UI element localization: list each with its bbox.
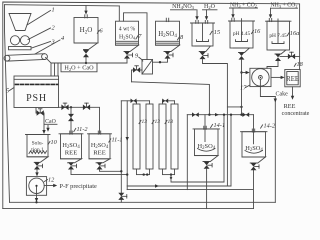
label 4wt% H2SO4 tank 7 (119, 27, 136, 41)
svg-text:CaO: CaO (45, 119, 56, 125)
svg-text:REE: REE (286, 76, 299, 83)
reactor tank 16a (266, 18, 292, 54)
svg-text:concentrate: concentrate (282, 111, 310, 117)
label H2O underline (203, 9, 218, 11)
label 10 pointer (48, 141, 50, 144)
tank H2SO4 8 (156, 18, 180, 51)
svg-text:1: 1 (52, 7, 55, 14)
svg-text:NH3 + CO2: NH3 + CO2 (270, 3, 297, 9)
pipe label box H2O+CaO (61, 63, 97, 72)
wire eluate line 1 arrow (155, 184, 159, 187)
wire columns feed downpipe (120, 101, 122, 203)
mixer box 9 (142, 60, 153, 75)
wire bottom return pipe (3, 208, 254, 210)
wire tank 8 outlet to mixer 9 (153, 59, 168, 63)
label 18 pointer (294, 63, 296, 66)
label 16 pointer (252, 30, 254, 33)
valve on bridge 2 (162, 99, 168, 104)
node header 1 dots (143, 173, 149, 175)
valve under tank 14-2 (251, 163, 260, 170)
wire filter 17 output arrow to 18 (271, 76, 285, 79)
valve on feed line right (242, 112, 249, 117)
wire mix line to PSH (51, 63, 127, 76)
valve on branch to dryer 18 (288, 52, 295, 59)
label 14-1 pointer (211, 124, 213, 127)
label 12 pointer (45, 180, 48, 182)
label 6 pointer (97, 30, 99, 33)
label 16a pointer (287, 32, 289, 35)
label REE concentrate (282, 103, 310, 117)
label 15 pointer (210, 31, 212, 34)
tank 4wt% H2SO4 7 (116, 21, 139, 51)
node tank6 junction (85, 62, 87, 64)
svg-text:Solu-: Solu- (32, 141, 44, 147)
label NH3+CO2 underline 16a (271, 7, 298, 9)
svg-text:18: 18 (297, 61, 304, 68)
wire cake arrow (274, 99, 277, 103)
wire conveyor chute (46, 58, 51, 63)
wire tank 6 outlet (85, 57, 87, 63)
label H2SO4 REE tank 11-1 (91, 142, 109, 157)
wire drop into tank 14-1 (204, 115, 206, 129)
valve on PSH bottom line left (61, 103, 68, 110)
node second downpipe junction (126, 173, 128, 175)
svg-text:13: 13 (168, 119, 174, 125)
svg-text:4 wt %: 4 wt % (119, 27, 136, 33)
wire PSH inlet drop 3 (57, 63, 59, 76)
wire feed line left downcomer (186, 115, 188, 190)
svg-text:11-1: 11-1 (112, 137, 123, 144)
valve under tank 14-1 (204, 162, 213, 169)
svg-text:REE: REE (65, 149, 77, 156)
svg-text:17: 17 (240, 85, 247, 92)
svg-text:4: 4 (61, 35, 64, 42)
label 13 b pointer (152, 120, 154, 123)
valve on feed line left (192, 112, 199, 117)
node downpipe junction (120, 170, 122, 172)
wire filter 17 cake drain (260, 87, 275, 97)
wire REE concentrate arrow (291, 87, 294, 100)
svg-text:10: 10 (51, 139, 58, 146)
wire PSH left outlet to tank 10 (36, 108, 44, 132)
valve under tank 16a (275, 54, 281, 61)
svg-text:13: 13 (142, 119, 148, 125)
svg-text:tion 1: tion 1 (31, 147, 44, 153)
wire feed arrow into filter 17 (242, 71, 250, 74)
svg-text:Cake: Cake (276, 92, 289, 98)
svg-text:14-1: 14-1 (214, 122, 226, 129)
wire bridge 2 (163, 101, 175, 104)
reactor tank 15 (191, 20, 215, 51)
valve on PSH bottom line right (83, 103, 90, 110)
label 7 pointer (136, 36, 138, 39)
node feed line junctions (208, 114, 243, 116)
wire filter 12 output arrow (44, 184, 57, 187)
wire top pipe drop into tank 7 (118, 6, 120, 21)
wire mixer 9 inlet from main line (132, 70, 143, 82)
svg-text:H2O + CaO: H2O + CaO (64, 65, 94, 72)
label 3 pointer (32, 42, 51, 49)
svg-text:H2O: H2O (204, 4, 216, 10)
tank H2O 6 (74, 15, 98, 50)
valve on tank 10 feed (37, 109, 44, 116)
dryer box REE 18 (285, 70, 300, 87)
wire inner top pipe (5, 5, 120, 6)
valve under tank 7 (124, 51, 133, 58)
wire column header 1 (137, 169, 150, 175)
wire column header 2 (163, 169, 175, 175)
label 9 pointer (139, 57, 143, 61)
svg-text:14-2: 14-2 (264, 123, 276, 130)
wire arrowhead into tank 10 (42, 130, 45, 134)
label 13 c pointer (165, 120, 167, 123)
wire PSH bottom line to tanks 11 (59, 107, 100, 134)
wire cake downpipe (274, 97, 276, 203)
svg-text:REE: REE (284, 103, 296, 110)
reactor tank 16 (229, 18, 255, 52)
svg-text:pH 7.45: pH 7.45 (269, 33, 287, 39)
wire bridge 1 (121, 101, 149, 104)
valve under tank 11-1 (97, 162, 106, 169)
sorption column 13-3 (159, 104, 166, 169)
svg-text:16a: 16a (290, 30, 299, 37)
wire main recycle line (132, 82, 210, 115)
svg-text:H2SO4: H2SO4 (119, 35, 136, 41)
wire eluate line 2 (127, 189, 252, 191)
wire PSH inlet drop 2 (54, 63, 56, 76)
valve on bridge 1 (131, 99, 137, 104)
wire drop into tank 14-2 (253, 115, 255, 132)
wire tank 10 outlet to filter 12 (35, 170, 38, 177)
label CaO underline (45, 123, 58, 125)
svg-text:12: 12 (48, 177, 55, 184)
tank 10 solution (26, 135, 51, 163)
wire tank 14-2 outlet (253, 170, 255, 208)
svg-text:15: 15 (214, 29, 220, 36)
node mix junction 15-16 (240, 106, 242, 108)
label Solution 1 tank 10 (31, 141, 44, 153)
wire feed line arrow (215, 113, 219, 116)
wire NH4NO3 feed arrow (195, 10, 198, 20)
valve under tank 16 (239, 52, 245, 59)
wire H2O feed arrow (205, 10, 208, 20)
tank 14-1 (193, 126, 220, 161)
label 14-2 pointer (261, 125, 263, 128)
crusher rolls 2 (10, 36, 29, 45)
wire tank 15 outlet path (203, 59, 242, 107)
wire second column downpipe (126, 101, 128, 190)
svg-text:5: 5 (6, 88, 9, 95)
label NH4NO3 underline (171, 9, 197, 11)
valve at mixer 9 inlet (133, 66, 140, 73)
wire bottom cake recycle pipe (10, 201, 276, 203)
wire tank 14-1 outlet (206, 169, 208, 209)
hopper 1 (9, 14, 31, 31)
wire mixer 9 outlet riser to tank 7 (124, 13, 148, 60)
label 4 pointer (35, 40, 60, 54)
wire tanks 14 feed line (187, 114, 253, 116)
tank 11-2 (59, 131, 83, 163)
label H2SO4 REE tank 11-2 (62, 142, 80, 157)
label 8 pointer (178, 37, 180, 40)
wire downpipe arrow (126, 137, 129, 141)
svg-text:11-2: 11-2 (77, 126, 89, 133)
label 11-1 pointer (109, 139, 111, 142)
wire tank 11-2 outlet (71, 170, 127, 175)
wire tank 16a outlet to filter 17 (267, 61, 278, 68)
wire riser to feed line right (230, 115, 232, 186)
svg-text:pH 4.45: pH 4.45 (233, 31, 251, 37)
node header 2 dots (170, 173, 172, 179)
wire tank 7 outlet (126, 59, 128, 63)
wire feed arrow into tank 6 (84, 6, 87, 15)
svg-text:NH3 + CO2: NH3 + CO2 (230, 2, 257, 8)
sorption column 13-2 (146, 104, 153, 169)
valve under tank 8 (165, 51, 174, 58)
wire tank 11-1 outlet (100, 170, 122, 172)
valve under tank 6 (83, 50, 89, 58)
label 17 pointer (246, 85, 250, 88)
screen 3 (9, 47, 32, 50)
label 11-2 pointer (74, 128, 76, 131)
wire tank 16a branch to dryer 18 (280, 55, 300, 57)
wire filter 12 drain (35, 195, 38, 203)
node tank8 mixer junction (159, 61, 161, 63)
wire tank 16 outlet downpipe (241, 60, 243, 115)
valve under tank 11-2 (68, 162, 77, 169)
tank 11-1 (88, 131, 112, 163)
svg-text:P-F precipitate: P-F precipitate (60, 183, 97, 190)
conveyor 4 (4, 54, 47, 61)
wire inner left recycle pipe (5, 5, 10, 203)
label 1 pointer (27, 11, 51, 26)
sorption column 13-1 (133, 104, 140, 169)
label 13 a pointer (139, 120, 141, 123)
wire eluate line 1 (127, 185, 231, 187)
filter 12 (26, 177, 46, 196)
wire NH3+CO2 feed arrow into 16a (269, 8, 272, 18)
svg-text:13: 13 (155, 119, 161, 125)
filter 17 (250, 68, 271, 86)
sorption column 13-4 (171, 104, 178, 169)
label 5 pointer (10, 88, 15, 91)
wire NH3+CO2 feed arrow into 16 (231, 8, 234, 18)
node filter feed junction (240, 71, 242, 73)
wire riser to feed line left (223, 115, 225, 182)
tank 14-2 (241, 129, 268, 163)
label NH3+CO2 underline 16 (230, 7, 258, 9)
svg-text:NH4NO3: NH4NO3 (172, 4, 195, 10)
wire header 2 outlet (171, 175, 224, 182)
tank PSH 5 (14, 76, 59, 108)
valve on branch to tank 11-2 (68, 114, 74, 121)
svg-text:3: 3 (51, 39, 55, 46)
valve on columns downpipe bottom (118, 193, 127, 200)
svg-text:16: 16 (254, 28, 261, 35)
wire branch into tank 11-2 (70, 107, 72, 134)
valve under tank 15 (200, 52, 209, 59)
svg-text:REE: REE (93, 149, 105, 156)
svg-text:PSH: PSH (26, 93, 47, 104)
valve under tank 10 (34, 162, 43, 169)
node branch to tank 11-2 (70, 106, 72, 108)
wire CaO addition arrow (46, 125, 49, 132)
label 2 pointer (28, 28, 51, 40)
wire riser mid (226, 107, 228, 186)
